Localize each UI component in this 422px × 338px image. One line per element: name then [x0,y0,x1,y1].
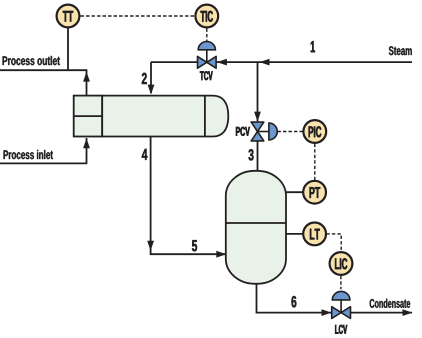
arrow condensate out [403,309,413,316]
instrument TIC [195,5,218,28]
arrow line 5 into vessel [216,251,226,258]
wire branch to PCV [257,62,259,121]
heat exchanger head [74,96,103,137]
node 5 [192,240,197,251]
heat exchanger shell [102,96,228,137]
arrow steam near junction [260,59,270,66]
arrow process inlet into exchanger [83,138,90,148]
instrument LT [303,223,326,246]
label TCV [200,71,213,80]
label Process outlet [3,56,60,65]
node 1 [311,41,315,52]
valve LCV stem [340,300,342,313]
valve PCV body [251,122,264,131]
arrow line 2 into exchanger [148,85,155,95]
instrument LIC [330,252,353,275]
node 3 [249,149,254,160]
label LT [310,229,320,240]
signal PCV to PIC dashed [278,131,303,133]
signal TT to TIC dashed [81,15,195,17]
label Process inlet [4,150,53,159]
valve PCV actuator dome [269,123,277,140]
arrow into TCV [217,59,227,66]
valve TCV stem [206,50,208,63]
wire process inlet [0,162,87,164]
node 2 [142,73,147,84]
node 4 [142,149,148,160]
instrument PT [303,181,326,204]
label Steam [389,46,412,55]
wire line 2 vertical [150,62,152,93]
label PCV [236,127,250,136]
wire line 5 [150,253,225,255]
signal LIC to LCV dashed [340,276,342,290]
vessel condensate drum [226,171,286,284]
wire line 4 [150,137,152,255]
label LCV [335,325,347,334]
wire vessel to PT [286,191,303,193]
arrow line 6 into LCV [322,309,332,316]
signal LT to LIC dashed [326,234,341,252]
instrument PIC [303,120,326,143]
arrow line 4 down [147,241,154,251]
label PIC [309,126,322,137]
node 6 [291,296,296,307]
label TT [63,11,73,22]
valve TCV actuator dome [198,41,215,49]
wire condensate line [351,312,412,314]
label LIC [335,258,347,269]
label Condensate [370,299,410,308]
label PT [310,187,321,198]
arrow process outlet up [83,72,90,82]
valve LCV body [332,307,341,319]
heat exchanger head divider [74,115,103,117]
wire TT stem [67,28,69,70]
wire line 3 [257,141,259,172]
arrow into PCV [254,112,261,122]
heat exchanger tubesheet line [204,96,206,137]
valve PCV stem [258,131,269,133]
wire line 6 [257,284,332,313]
wire vessel to LT [286,233,303,235]
wire steam line 1 [151,61,412,63]
valve TCV body [198,56,207,68]
signal PIC to PT dashed [314,144,316,181]
label TIC [201,11,213,22]
signal TIC to TCV dashed [206,29,208,42]
valve LCV actuator dome [332,291,350,300]
wire process outlet [0,69,87,71]
instrument TT [57,5,80,28]
vessel liquid level line [226,222,286,224]
